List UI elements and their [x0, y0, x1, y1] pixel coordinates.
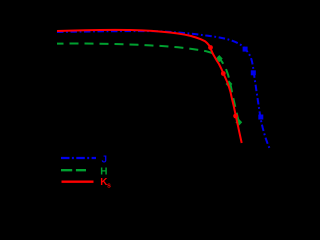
- svg-text:J: J: [102, 154, 108, 165]
- marker circle R1: [208, 45, 213, 50]
- marker square B1: [243, 47, 248, 52]
- marker square B3: [258, 115, 263, 120]
- legend line J: [61, 157, 96, 159]
- marker circle R2: [221, 71, 226, 76]
- legend line Ks: [62, 181, 94, 183]
- svg-text:H: H: [100, 166, 107, 177]
- legend line H: [61, 169, 86, 171]
- curve J (blue dash-dot): [57, 31, 270, 148]
- marker diamond G1: [216, 55, 223, 62]
- marker diamond G2: [226, 80, 233, 87]
- svg-text:s: s: [107, 182, 111, 189]
- curve H (green dashed): [57, 44, 239, 125]
- curve Ks (red solid): [57, 30, 242, 143]
- marker square B2: [251, 70, 256, 75]
- marker circle R3: [233, 114, 238, 119]
- marker diamond G3: [235, 119, 242, 126]
